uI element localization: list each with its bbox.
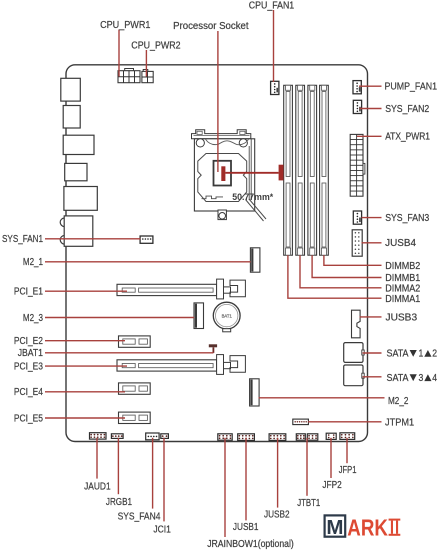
svg-text:JCI1: JCI1 (153, 524, 171, 535)
svg-text:JFP1: JFP1 (339, 465, 357, 476)
svg-text:CPU_PWR1: CPU_PWR1 (100, 20, 150, 31)
svg-text:CPU_PWR2: CPU_PWR2 (131, 40, 180, 51)
svg-text:JUSB4: JUSB4 (385, 238, 416, 249)
svg-text:ARK: ARK (347, 515, 388, 541)
svg-text:DIMMA2: DIMMA2 (385, 284, 420, 295)
svg-text:ATX_PWR1: ATX_PWR1 (385, 131, 430, 142)
svg-text:JRGB1: JRGB1 (106, 497, 132, 508)
svg-text:M: M (326, 516, 343, 539)
svg-text:SYS_FAN2: SYS_FAN2 (385, 104, 429, 115)
svg-text:DIMMB1: DIMMB1 (385, 273, 420, 284)
svg-text:SATA: SATA (387, 373, 409, 384)
svg-text:SYS_FAN4: SYS_FAN4 (118, 512, 161, 523)
svg-text:JUSB2: JUSB2 (264, 509, 290, 520)
svg-text:JFP2: JFP2 (322, 480, 341, 491)
svg-text:CPU_FAN1: CPU_FAN1 (249, 1, 294, 12)
svg-text:2: 2 (432, 349, 437, 360)
svg-text:SYS_FAN3: SYS_FAN3 (385, 213, 429, 224)
svg-text:JUSB3: JUSB3 (386, 313, 418, 324)
svg-text:PUMP_FAN1: PUMP_FAN1 (385, 81, 437, 92)
svg-text:JBAT1: JBAT1 (18, 348, 43, 359)
svg-text:M2_1: M2_1 (23, 257, 43, 268)
svg-text:3: 3 (419, 373, 424, 384)
svg-text:PCI_E3: PCI_E3 (14, 361, 43, 372)
svg-text:SYS_FAN1: SYS_FAN1 (2, 234, 43, 245)
svg-text:50.77mm*: 50.77mm* (232, 192, 273, 202)
svg-text:1: 1 (419, 349, 424, 360)
svg-text:SATA: SATA (387, 349, 409, 360)
svg-text:M2_3: M2_3 (23, 313, 43, 324)
svg-text:PCI_E5: PCI_E5 (14, 413, 43, 424)
svg-text:PCI_E1: PCI_E1 (14, 287, 43, 298)
svg-text:M2_2: M2_2 (388, 396, 408, 407)
svg-text:DIMMA1: DIMMA1 (385, 294, 420, 305)
svg-text:JUSB1: JUSB1 (233, 522, 259, 533)
svg-text:JTBT1: JTBT1 (297, 498, 320, 509)
svg-text:PCI_E2: PCI_E2 (14, 336, 43, 347)
svg-text:JTPM1: JTPM1 (385, 417, 414, 428)
svg-text:PCI_E4: PCI_E4 (14, 387, 44, 398)
svg-text:4: 4 (432, 373, 437, 384)
svg-text:Processor Socket: Processor Socket (173, 21, 249, 32)
svg-text:BAT1: BAT1 (222, 313, 233, 318)
svg-text:DIMMB2: DIMMB2 (385, 261, 420, 272)
svg-text:JRAINBOW1(optional): JRAINBOW1(optional) (207, 539, 294, 550)
svg-text:JAUD1: JAUD1 (84, 482, 111, 493)
